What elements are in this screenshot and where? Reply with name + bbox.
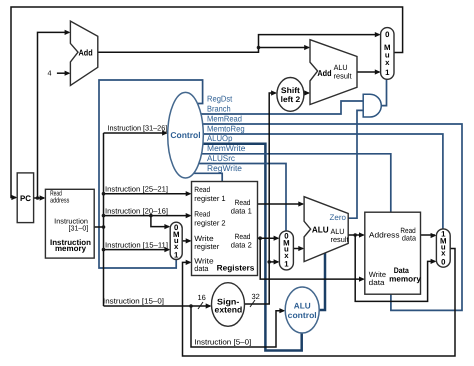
wire shift left 2 to branch Add [304, 92, 309, 94]
mux MemtoReg [436, 229, 450, 267]
svg-text:data 2: data 2 [231, 240, 252, 249]
node junction 15-11 [102, 248, 106, 252]
sign extend oval [212, 283, 245, 327]
node PC+4 junction [257, 46, 261, 50]
svg-text:memory: memory [55, 244, 87, 253]
svg-text:ALU: ALU [294, 301, 311, 310]
wire PC to Add [38, 32, 70, 198]
wire Instruction 15-0 to sign extend [104, 305, 211, 307]
shift left 2 oval [277, 78, 304, 112]
svg-text:ALUOp: ALUOp [207, 133, 233, 143]
adder Add (PC+4) [70, 21, 97, 85]
wire Instruction 15-11 [104, 249, 169, 251]
svg-text:result: result [331, 235, 350, 244]
svg-text:Instruction [5–0]: Instruction [5–0] [194, 338, 251, 347]
ALU control oval [285, 287, 319, 333]
AND gate [363, 94, 381, 117]
wire ALUOp control path [196, 144, 302, 351]
svg-text:16: 16 [198, 293, 206, 302]
svg-text:data 1: data 1 [231, 206, 252, 215]
svg-text:Read: Read [194, 185, 210, 194]
svg-text:MemWrite: MemWrite [207, 143, 246, 153]
ALU main [304, 197, 349, 262]
mux PCSrc (top) [381, 28, 394, 80]
svg-text:Branch: Branch [207, 103, 231, 113]
svg-text:0: 0 [385, 30, 390, 39]
svg-text:PC: PC [20, 194, 31, 203]
svg-text:memory: memory [389, 274, 421, 283]
wire Read data 2 to ALUSrc mux [258, 237, 279, 239]
svg-text:register: register [194, 242, 219, 251]
mux ALUSrc [279, 231, 293, 270]
svg-text:1: 1 [385, 68, 390, 77]
slash 32 [250, 300, 255, 307]
svg-text:Instruction [15–0]: Instruction [15–0] [103, 297, 164, 306]
svg-text:0: 0 [441, 257, 446, 266]
node junction 25-21 [102, 192, 106, 196]
svg-text:Read: Read [194, 210, 210, 219]
wire branch Add output to mux [357, 71, 379, 73]
svg-text:data: data [194, 264, 209, 273]
svg-text:Add: Add [79, 47, 93, 57]
wire mux output feedback to PC [11, 7, 403, 198]
svg-text:x: x [385, 58, 390, 67]
wire MemRead control path [195, 124, 462, 310]
node junction 20-16 branch [149, 214, 153, 218]
register PC [17, 173, 33, 223]
svg-text:Add: Add [317, 68, 331, 78]
svg-text:ALUSrc: ALUSrc [207, 153, 235, 163]
svg-text:1: 1 [174, 251, 179, 260]
wire ALUSrc control path [194, 164, 286, 231]
slash 16 [198, 302, 203, 309]
wire ALU control to ALU [317, 253, 325, 310]
mux RegDst [170, 222, 182, 259]
wire instruction memory output bus [94, 133, 103, 306]
node bus junction instr out [102, 225, 106, 229]
wire Add output PC+4 [98, 35, 380, 53]
wire data memory read data to mux [421, 234, 436, 236]
svg-text:Instruction [31–26]: Instruction [31–26] [108, 124, 168, 133]
svg-text:Control: Control [170, 130, 200, 140]
node PC out junction [36, 196, 40, 200]
svg-text:Instruction [15–11]: Instruction [15–11] [105, 240, 168, 249]
wire MemWrite control path [196, 154, 391, 212]
wire ALU result wrap to MemtoReg mux [355, 235, 435, 301]
node junction sign extend out [267, 260, 271, 264]
node junction 20-16 [102, 214, 106, 218]
wire sign extend branch to ALUSrc mux [269, 261, 278, 263]
node junction read data 2 [258, 236, 262, 240]
svg-text:Instruction [20–16]: Instruction [20–16] [105, 206, 168, 215]
svg-text:control: control [288, 311, 317, 320]
svg-text:RegDst: RegDst [207, 93, 233, 103]
svg-text:Zero: Zero [330, 213, 347, 222]
svg-text:address: address [50, 196, 69, 205]
svg-text:Shift: Shift [281, 86, 300, 95]
svg-text:result: result [334, 72, 353, 81]
svg-text:1: 1 [284, 259, 289, 268]
node junction 15-0 [189, 304, 193, 308]
wire PC+4 to branch Add [259, 47, 309, 49]
svg-text:Address: Address [369, 230, 400, 239]
wire RegDst control path [99, 80, 203, 268]
wire Read data 1 to ALU [258, 203, 303, 205]
adder Add ALU result (branch) [310, 40, 357, 105]
svg-text:MemRead: MemRead [207, 113, 242, 123]
wire 20-16 branch to RegDst mux [151, 216, 169, 227]
wire Read data 2 to data memory write data [260, 238, 363, 279]
wire Instruction 20-16 [104, 215, 191, 217]
instruction memory [45, 189, 94, 258]
svg-text:register 2: register 2 [194, 219, 225, 228]
wire ALUSrc mux output to ALU [293, 248, 302, 250]
wire ALU result to data memory address [348, 234, 363, 236]
wire MemtoReg control path [196, 134, 443, 229]
wire constant 4 to Add [57, 72, 69, 74]
wire MemtoReg mux output write back [183, 249, 456, 357]
wire Instruction 25-21 [104, 193, 191, 195]
svg-text:32: 32 [252, 292, 260, 301]
node junction ALU result [353, 233, 357, 237]
svg-text:register 1: register 1 [194, 194, 225, 203]
wire Zero to AND gate [348, 110, 363, 218]
wire Instruction 31-26 to Control [104, 132, 167, 134]
wire Branch control path [193, 101, 363, 114]
svg-text:data: data [402, 233, 417, 242]
wire RegWrite control path [190, 173, 222, 181]
wire RegDst mux output to write register [182, 240, 190, 242]
svg-text:Registers: Registers [217, 264, 255, 273]
svg-text:MemtoReg: MemtoReg [207, 123, 245, 133]
control unit oval [168, 92, 204, 178]
wire sign extend output to shift left 2 [245, 93, 276, 304]
data memory [365, 212, 422, 294]
svg-text:4: 4 [48, 69, 52, 78]
svg-text:RegWrite: RegWrite [207, 163, 242, 173]
svg-text:ALU: ALU [312, 224, 329, 234]
wire AND gate output to mux select [381, 79, 386, 105]
svg-text:left 2: left 2 [281, 95, 301, 104]
svg-text:[31–0]: [31–0] [69, 224, 89, 233]
svg-text:data: data [369, 278, 386, 287]
wire Instruction 5-0 to ALU control [191, 306, 284, 347]
wire PC to instruction memory [34, 197, 44, 199]
svg-text:Instruction [25–21]: Instruction [25–21] [105, 185, 168, 194]
registers block [192, 182, 258, 276]
svg-text:extend: extend [215, 305, 243, 315]
